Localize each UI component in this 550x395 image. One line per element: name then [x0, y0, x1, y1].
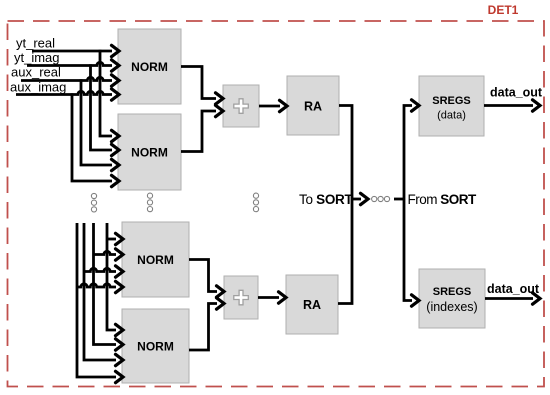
- arrow into NORM3 in4: [116, 281, 124, 292]
- arrow into P1 in1: [216, 93, 224, 104]
- wire NORM1 out to adder P1: [181, 67, 216, 99]
- arrow To SORT: [361, 193, 369, 204]
- svg-text:To SORT: To SORT: [299, 192, 353, 207]
- svg-text:DET1: DET1: [488, 3, 519, 17]
- wire From SORT tick: [394, 198, 404, 201]
- svg-text:NORM: NORM: [137, 253, 174, 267]
- svg-text:NORM: NORM: [131, 146, 168, 160]
- svg-text:(data): (data): [437, 110, 466, 122]
- arrow into P2 in2: [217, 298, 225, 309]
- arrow into SREGS2: [412, 295, 420, 306]
- wire yt_imag branch to NORM2 in2: [91, 64, 113, 150]
- svg-text:NORM: NORM: [131, 60, 168, 74]
- arrow into RA2: [279, 292, 287, 303]
- wire SREGS1 data_out: [484, 104, 533, 107]
- svg-text:From SORT: From SORT: [408, 192, 478, 207]
- wire aux_imag to NORM1 with hops: [16, 91, 112, 94]
- block SREGS1: [419, 76, 484, 136]
- arrow into NORM4 in4: [116, 371, 124, 382]
- arrow into NORM2 in3: [112, 159, 120, 170]
- wire RA1 out down to RA2 out (To SORT trunk): [338, 106, 352, 304]
- wire NORM4 out to adder P2: [189, 304, 217, 351]
- dots column B: [147, 193, 152, 198]
- wire P2 out to RA2: [258, 296, 279, 299]
- arrow into NORM3 in2: [116, 249, 124, 260]
- block RA2: [286, 275, 338, 334]
- wire bus3 lower to NORM3 in3 and NORM4 in3: [84, 223, 116, 360]
- wire From SORT trunk to SREGS1 and SREGS2: [404, 106, 412, 301]
- svg-text:aux_real: aux_real: [11, 65, 61, 80]
- arrow data_out bottom: [533, 293, 541, 304]
- arrow into NORM3 in3: [116, 266, 124, 277]
- svg-text:(indexes): (indexes): [426, 300, 477, 314]
- arrow data_out top: [533, 100, 541, 111]
- svg-text:data_out: data_out: [490, 86, 543, 100]
- block NORM1: [118, 29, 181, 104]
- arrow into NORM4 in3: [116, 354, 124, 365]
- arrow into NORM4 in2: [116, 339, 124, 350]
- block adder P2: [224, 276, 258, 319]
- plus symbol P1: [234, 99, 249, 114]
- block RA1: [287, 76, 339, 135]
- wire branch To SORT: [352, 198, 361, 201]
- svg-text:NORM: NORM: [137, 340, 174, 354]
- block NORM4: [122, 309, 189, 383]
- dots To SORT: [372, 196, 377, 201]
- dots column C: [253, 193, 258, 198]
- wire NORM3 out to adder P2: [189, 260, 217, 292]
- block adder P1: [223, 85, 259, 127]
- svg-text:SREGS: SREGS: [432, 95, 471, 107]
- wire bus4 lower to NORM3 in4 and NORM4 in4: [77, 223, 116, 377]
- wire bus2 lower to NORM3 in2 and NORM4 in2: [94, 223, 117, 345]
- dots column A: [91, 193, 96, 198]
- wire SREGS2 data_out: [485, 297, 533, 300]
- svg-text:SREGS: SREGS: [433, 286, 472, 298]
- block NORM3: [122, 222, 189, 297]
- svg-text:yt_real: yt_real: [16, 36, 55, 51]
- svg-text:RA: RA: [304, 100, 322, 114]
- arrow into NORM3 in1: [116, 233, 124, 244]
- arrow into P2 in1: [217, 286, 225, 297]
- arrow into NORM1 in1: [112, 45, 120, 56]
- wire aux_real to NORM1 with hops: [21, 77, 112, 80]
- wire NORM2 out to adder P1: [181, 111, 216, 152]
- wire P1 out to RA1: [259, 105, 280, 108]
- svg-text:data_out: data_out: [487, 282, 540, 296]
- arrow into NORM1 in4: [112, 89, 120, 100]
- wire aux_real branch to NORM2 in3: [81, 79, 112, 165]
- arrow into NORM2 in1: [112, 130, 120, 141]
- arrow into NORM1 in2: [112, 60, 120, 71]
- svg-text:RA: RA: [303, 298, 321, 312]
- plus symbol P2: [234, 290, 249, 304]
- wire bus1 lower to NORM3 in1 and NORM4 in1: [107, 223, 116, 330]
- block NORM2: [118, 114, 181, 190]
- arrow into P1 in2: [216, 105, 224, 116]
- wire yt_real to NORM1: [32, 50, 112, 53]
- wire yt_real branch to NORM2 in1: [100, 50, 112, 136]
- block SREGS2: [419, 269, 485, 328]
- arrow into SREGS1: [412, 100, 420, 111]
- arrow into NORM4 in1: [116, 324, 124, 335]
- arrow into NORM1 in3: [112, 75, 120, 86]
- arrow into NORM2 in2: [112, 144, 120, 155]
- wire aux_imag branch to NORM2 in4: [72, 93, 112, 181]
- wire yt_imag to NORM1 with hop: [27, 62, 112, 65]
- arrow into NORM2 in4: [112, 175, 120, 186]
- arrow into RA1: [280, 100, 288, 111]
